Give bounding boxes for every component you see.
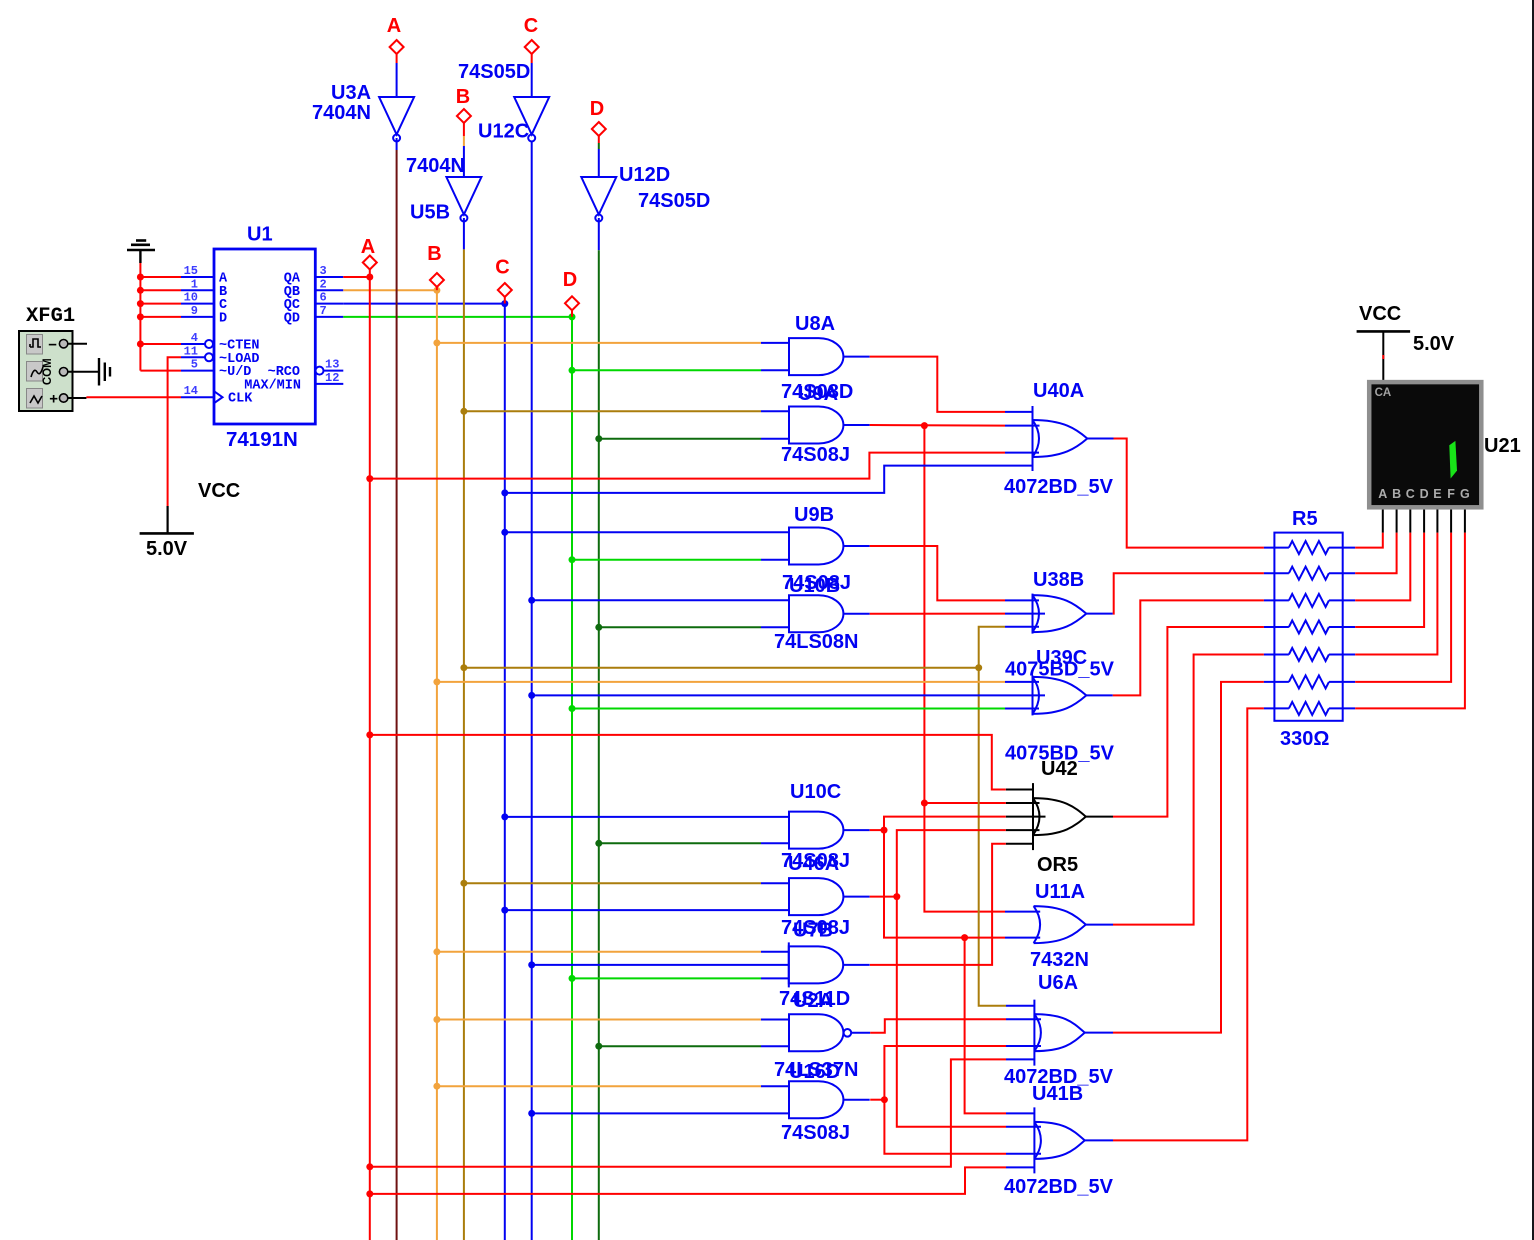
svg-text:D: D (563, 269, 577, 291)
OR gate U42 OR5 5-input black (1032, 783, 1034, 850)
U1 pin 3 stub (315, 276, 343, 278)
wire R5 row 3 to display pin C (1355, 533, 1410, 601)
lit segment green (1449, 441, 1457, 479)
wire XFG1 plus to CLK pin14 (68, 397, 87, 399)
wire U10C branch up to U42 in3 (884, 817, 1006, 831)
wire D to U8A in2 (572, 369, 761, 371)
wire rail to pin ~CTEN (140, 343, 181, 345)
wire XFG1 minus open stub (68, 343, 87, 345)
R5 resistor element row 4 (1264, 626, 1289, 628)
U1 pin 12 MAX/MIN stub (315, 383, 343, 385)
wire U41B out to R5 row7 (1113, 708, 1264, 1140)
svg-text:6: 6 (320, 291, 327, 305)
ground symbol above U1 rail (127, 249, 155, 252)
wire U9B out to U38B in1 (870, 546, 1005, 600)
svg-text:12: 12 (325, 371, 339, 385)
NAND gate U2A 74LS37N (789, 1014, 843, 1051)
svg-text:D: D (219, 311, 227, 326)
inverter U12D 74S05D (581, 177, 616, 215)
wire U39C out to R5 row3 (1113, 600, 1264, 695)
wire U42 out to R5 row4 (1113, 627, 1264, 817)
U1 pin 13 ~RCO stub with bubble (316, 367, 324, 375)
wire node C to U40A in4 blue (505, 466, 1005, 493)
svg-text:3: 3 (320, 264, 327, 278)
wire rail elbow to pin ~U/D (140, 370, 181, 372)
U1 pin 10 stub (181, 303, 214, 305)
svg-text:U12C: U12C (478, 121, 529, 143)
svg-text:U9A: U9A (798, 383, 838, 405)
svg-text:U46A: U46A (788, 853, 839, 875)
svg-text:U16D: U16D (789, 1061, 840, 1083)
U1 pin 5 ~U/D stub (181, 370, 214, 372)
node C top diamond (525, 40, 539, 54)
wire C to U4A in2 (505, 909, 761, 911)
svg-text:4072BD_5V: 4072BD_5V (1004, 1176, 1114, 1198)
R5 resistor element row 2 (1264, 572, 1289, 574)
U1 pin 1 stub (181, 289, 214, 291)
svg-text:B: B (427, 243, 441, 265)
svg-text:4072BD_5V: 4072BD_5V (1004, 476, 1114, 498)
wire bus D-bar vertical dark green from U12D (598, 218, 600, 250)
svg-text:G: G (1460, 487, 1470, 501)
wire R5 row 4 to display pin D (1355, 533, 1424, 627)
wire ground rail vertical (139, 263, 141, 371)
svg-text:OR5: OR5 (1037, 854, 1078, 876)
R5 resistor element row 1 (1264, 547, 1289, 549)
wire U6A out to R5 row6 (1113, 682, 1264, 1033)
wire U8A out to U40A in1 (870, 357, 1005, 412)
wire bus B vertical orange (436, 290, 438, 1240)
node C diamond (498, 283, 512, 297)
svg-text:9: 9 (191, 304, 198, 318)
wire U38B out to R5 row2 (1113, 573, 1264, 613)
svg-text:A: A (387, 15, 401, 37)
wire D to U9B in2 (572, 559, 761, 561)
wire B-bar feed to U38B in3 and U6A in1 olive (464, 667, 979, 669)
AND gate U9B 74S08J (789, 528, 843, 565)
R5 resistor element row 7 (1264, 707, 1289, 709)
wire U4A out branch (870, 896, 897, 898)
svg-text:U38B: U38B (1033, 569, 1084, 591)
svg-text:74S08J: 74S08J (781, 1122, 850, 1144)
wire U9A out to U40A in2 and down (870, 424, 1005, 427)
wire D diamond to U12D input (598, 136, 600, 143)
AND gate U8A 74S08D (789, 338, 843, 375)
wire D-bar to U10B in2 (599, 626, 761, 628)
wire VCC to pin ~LOAD (168, 357, 181, 506)
7-segment display U21 (1369, 382, 1481, 507)
svg-text:VCC: VCC (1359, 303, 1401, 325)
svg-text:7404N: 7404N (312, 102, 371, 124)
U1 pin names (219, 272, 301, 407)
svg-text:A: A (1378, 487, 1387, 501)
svg-text:CA: CA (1375, 387, 1392, 399)
wire U13A branch down to U41B in3 (884, 1100, 1006, 1154)
wire U10C branch down to U11A in2 and U41B in1 (884, 830, 1005, 938)
AND gate U16D 74S08J (789, 1081, 843, 1118)
OR gate U6A 4072BD_5V 4-input (1033, 1000, 1035, 1066)
wire R5 row 6 to display pin F (1355, 533, 1451, 682)
svg-text:B: B (456, 86, 470, 108)
OR gate U38B 4075BD_5V 3-input (1032, 594, 1034, 634)
svg-text:U11A: U11A (1035, 881, 1085, 903)
svg-text:VCC: VCC (198, 480, 240, 502)
wire U2A out to U42 in5 (870, 844, 1006, 965)
schematic page border right edge (1532, 0, 1534, 1240)
wire B to U2A in1 (437, 951, 761, 953)
svg-text:7404N: 7404N (406, 155, 465, 177)
wire bus D vertical green (571, 317, 573, 1240)
svg-text:2: 2 (320, 277, 327, 291)
wire U40A out to R5 row1 (1114, 439, 1264, 548)
wire B-bar to U9A in1 (464, 410, 761, 412)
svg-text:COM: COM (42, 358, 54, 385)
node B diamond (430, 273, 444, 287)
wire QA output (343, 276, 370, 278)
wire QC output blue (343, 303, 505, 305)
wire U11A out to R5 row5 (1113, 655, 1264, 925)
svg-text:15: 15 (184, 264, 198, 278)
wire U13A branch up to U6A in3 (884, 1046, 1006, 1100)
node D diamond (565, 296, 579, 310)
svg-text:CLK: CLK (228, 392, 253, 407)
svg-text:MAX/MIN: MAX/MIN (244, 378, 301, 393)
svg-text:R5: R5 (1292, 508, 1318, 530)
U1 pin 9 stub (181, 316, 214, 318)
wire D to U39C in3 green (572, 708, 1005, 710)
wire B to U16D in1 (437, 1019, 761, 1021)
svg-text:74LS08N: 74LS08N (774, 631, 859, 653)
wire bus C-bar vertical blue from U12C (531, 142, 533, 1240)
IC U1 74191N counter body (214, 249, 315, 424)
svg-text:U6A: U6A (1038, 972, 1078, 994)
wire rail to pin A (140, 276, 181, 278)
svg-text:5.0V: 5.0V (1413, 333, 1455, 355)
svg-text:U1: U1 (247, 224, 273, 246)
OR gate U39C 4075BD_5V 3-input (1032, 675, 1034, 715)
wire R5 row 5 to display pin E (1355, 533, 1437, 655)
XFG1 waveform buttons (27, 335, 43, 355)
U1 pin 7 stub (315, 316, 343, 318)
wire B-bar to U4A in1 (464, 882, 761, 884)
AND gate U10B 74LS08N (789, 595, 843, 632)
wire XFG1 COM to ground (68, 371, 98, 373)
wire C to U9B in1 (505, 531, 761, 533)
svg-text:U39C: U39C (1036, 647, 1087, 669)
svg-text:U8A: U8A (795, 313, 835, 335)
XFG1 function generator body (19, 331, 73, 411)
svg-text:D: D (590, 98, 604, 120)
wire C-bar to U13A in2 (532, 1112, 761, 1114)
inverter U12C 74S05D (514, 97, 549, 135)
R5 resistor element row 3 (1264, 599, 1289, 601)
U1 pin 11 ~LOAD stub with bubble (181, 356, 205, 358)
OR gate U11A 7432N 2-input (1034, 906, 1086, 943)
svg-text:U21: U21 (1484, 435, 1521, 457)
svg-text:5.0V: 5.0V (146, 538, 188, 560)
wire node A to U42 in1 (370, 735, 1006, 790)
node A top diamond (390, 40, 404, 54)
svg-text:E: E (1433, 487, 1441, 501)
AND gate U46A 74S08J (789, 878, 843, 915)
inverter U5B 7404N (446, 177, 481, 215)
svg-text:13: 13 (325, 358, 339, 372)
svg-text:C: C (495, 257, 509, 279)
svg-text:U42: U42 (1041, 758, 1078, 780)
node D top diamond (592, 122, 606, 136)
U1 pin 14 CLK stub with clock triangle (181, 396, 214, 398)
node B top diamond (457, 109, 471, 123)
resistor pack R5 330ohm (1274, 533, 1342, 721)
wire U16D out to U6A in2 (870, 1019, 1006, 1033)
wire C diamond to U12C input (531, 54, 533, 63)
wire D-bar to U16D in2 (599, 1045, 761, 1047)
svg-text:QD: QD (284, 311, 300, 326)
svg-text:+: + (49, 391, 58, 408)
OR gate U41B 4072BD_5V 4-input (1033, 1107, 1035, 1173)
wire D-bar to U9A in2 (599, 438, 761, 440)
wire node A to U40A in3 (370, 453, 1005, 479)
R5 resistor element row 6 (1264, 681, 1289, 683)
svg-text:10: 10 (184, 291, 198, 305)
wire A diamond to U3A input (396, 54, 398, 63)
wire B to U13A in1 (437, 1085, 761, 1087)
svg-text:U12D: U12D (619, 164, 670, 186)
wire B to U8A in1 (437, 342, 761, 344)
svg-text:7432N: 7432N (1030, 949, 1089, 971)
wire QD output green (343, 316, 572, 318)
svg-text:74S05D: 74S05D (458, 61, 530, 83)
svg-text:U10C: U10C (790, 781, 841, 803)
wire rail to pin C (140, 303, 181, 305)
wire rail to pin D (140, 316, 181, 318)
wire QB output orange (343, 289, 437, 291)
svg-text:1: 1 (191, 277, 198, 291)
wire U10B out to U38B in2 (870, 613, 1005, 615)
U1 pin 4 ~CTEN stub with bubble (181, 343, 205, 345)
wire U42 in2 branch (924, 802, 1005, 804)
svg-text:5: 5 (191, 358, 198, 372)
svg-text:F: F (1447, 487, 1455, 501)
wire bus C vertical blue (504, 304, 506, 1240)
svg-text:B: B (1392, 487, 1401, 501)
svg-text:D: D (1420, 487, 1429, 501)
svg-text:U40A: U40A (1033, 380, 1084, 402)
svg-text:74191N: 74191N (226, 428, 298, 451)
svg-text:C: C (1406, 487, 1415, 501)
wire bus B-bar vertical olive from U5B (463, 218, 465, 249)
AND gate U7B 74S11D 3-input (788, 942, 790, 987)
svg-text:A: A (361, 236, 375, 258)
R5 resistor element row 5 (1264, 654, 1289, 656)
node A diamond (363, 256, 377, 270)
svg-text:XFG1: XFG1 (26, 305, 75, 328)
U1 pin 2 stub (315, 289, 343, 291)
wire B diamond to U5B input (463, 123, 465, 136)
wire R5 row 1 to display pin A (1355, 533, 1383, 548)
wire U13A out branch (870, 1099, 884, 1101)
svg-text:U10B: U10B (789, 575, 840, 597)
svg-text:U2A: U2A (793, 990, 833, 1012)
svg-text:U7B: U7B (793, 920, 833, 942)
svg-text:U9B: U9B (794, 504, 834, 526)
wire D to U2A in3 (572, 977, 761, 979)
ground symbol at XFG1 COM (rotated) (98, 358, 100, 386)
wire U4A branch down to U41B in2 (897, 897, 1006, 1127)
wire bus A vertical red (369, 277, 371, 1240)
svg-text:330Ω: 330Ω (1280, 728, 1329, 750)
wire bus A-bar vertical maroon from U3A (396, 138, 398, 150)
OR gate U40A 4072BD_5V 4-input (1032, 406, 1034, 471)
svg-text:4: 4 (191, 331, 198, 345)
svg-text:11: 11 (184, 344, 198, 358)
svg-text:74S08J: 74S08J (781, 444, 850, 466)
svg-text:C: C (524, 15, 538, 37)
XFG1 terminals (59, 340, 67, 348)
wire C-bar to U39C in2 blue (532, 694, 1005, 696)
wire C to U10C in1 (505, 816, 761, 818)
U1 pin 6 stub (315, 303, 343, 305)
svg-text:U41B: U41B (1032, 1083, 1083, 1105)
svg-text:74S05D: 74S05D (638, 190, 710, 212)
wire D-bar to U10C in2 (599, 842, 761, 844)
wire node A to U41B in4 (370, 1167, 1006, 1194)
U1 pin 15 stub (181, 276, 214, 278)
wire B to U39C in1 orange (437, 681, 1005, 683)
svg-text:14: 14 (184, 384, 198, 398)
AND gate U9A 74S08J (789, 407, 843, 444)
wire R5 row 2 to display pin B (1355, 533, 1396, 574)
svg-text:U3A: U3A (331, 82, 371, 104)
svg-text:7: 7 (320, 304, 327, 318)
VCC power symbol left (167, 506, 169, 533)
wire U4A branch up to U42 in4 (897, 830, 1006, 896)
svg-text:−: − (48, 337, 57, 354)
wire U9A branch down to U42 in2 and U11A in1 (924, 426, 1005, 912)
wire rail to pin B (140, 289, 181, 291)
AND gate U10C 74S08J (789, 812, 843, 849)
wire C-bar to U10B in1 (532, 599, 761, 601)
wire U10C out branch (870, 829, 884, 831)
svg-text:U5B: U5B (410, 202, 450, 224)
wire C-bar to U2A in2 (532, 964, 761, 966)
wire node A to U6A in4 (370, 1059, 1006, 1166)
wire R5 row 7 to display pin G (1355, 533, 1465, 709)
inverter U3A 7404N (379, 97, 414, 135)
